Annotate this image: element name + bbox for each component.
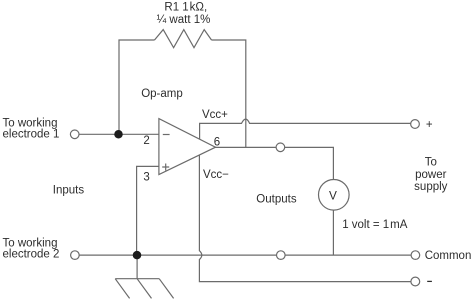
svg-text:To: To: [425, 156, 437, 168]
terminal: Common: [411, 251, 420, 260]
svg-text:3: 3: [143, 172, 149, 184]
svg-text:Vcc−: Vcc−: [203, 169, 229, 181]
wire: Vcc+ pin and rail to + terminal (hop over feedback wire): [200, 119, 411, 139]
terminal: input 1 (open circle): [70, 130, 79, 139]
svg-text:Inputs: Inputs: [53, 185, 85, 197]
op-amp U1: [159, 119, 216, 175]
wire: common rail from electrode 2 to Common terminal: [79, 254, 411, 256]
terminal: output common tap (open circle): [277, 251, 286, 260]
svg-text:supply: supply: [414, 181, 447, 193]
svg-text:R1 1 kΩ,: R1 1 kΩ,: [164, 2, 207, 14]
svg-text:1 volt = 1 mA: 1 volt = 1 mA: [342, 219, 408, 231]
terminal: output positive tap (open circle): [276, 143, 285, 152]
ground (chassis): [115, 255, 173, 298]
svg-text:V: V: [329, 189, 337, 203]
svg-text:electrode 2: electrode 2: [3, 249, 60, 261]
svg-text:Outputs: Outputs: [256, 193, 297, 205]
svg-text:+: +: [426, 119, 433, 131]
svg-text:Common: Common: [425, 250, 472, 262]
wire: voltmeter to common rail: [332, 210, 334, 255]
terminal: input 2 (open circle): [71, 251, 80, 260]
svg-text:electrode 1: electrode 1: [3, 128, 60, 140]
svg-text:6: 6: [214, 136, 220, 148]
resistor R1: [155, 30, 212, 48]
label: V inside voltmeter: [329, 189, 337, 203]
svg-text:Op-amp: Op-amp: [141, 88, 183, 100]
op-amp plus input marking: [162, 164, 169, 171]
svg-text:power: power: [415, 169, 446, 181]
wire: R1 right end down to output node: [212, 40, 246, 147]
label: - terminal: [427, 280, 432, 282]
node: junction electrode 2 / pin 3 / ground: [133, 251, 142, 260]
terminal: power supply +: [411, 120, 420, 129]
svg-text:¼ watt 1%: ¼ watt 1%: [157, 14, 211, 26]
voltmeter V1 body: [319, 180, 350, 211]
svg-text:Vcc+: Vcc+: [202, 109, 228, 121]
wire: pin 3 to ground rail: [137, 166, 159, 255]
wire: inverting input node up to R1 left end: [119, 40, 155, 134]
wire: Vcc- pin down to negative rail (hop over common rail): [199, 155, 411, 281]
wire: output from pin 6 to down-corner: [216, 147, 334, 179]
node: junction input 1 / feedback: [114, 130, 123, 139]
svg-text:2: 2: [143, 135, 149, 147]
terminal: power supply -: [411, 277, 420, 286]
op-amp minus input marking: [163, 134, 170, 136]
wire: electrode 1 input to pin 2: [79, 133, 159, 135]
